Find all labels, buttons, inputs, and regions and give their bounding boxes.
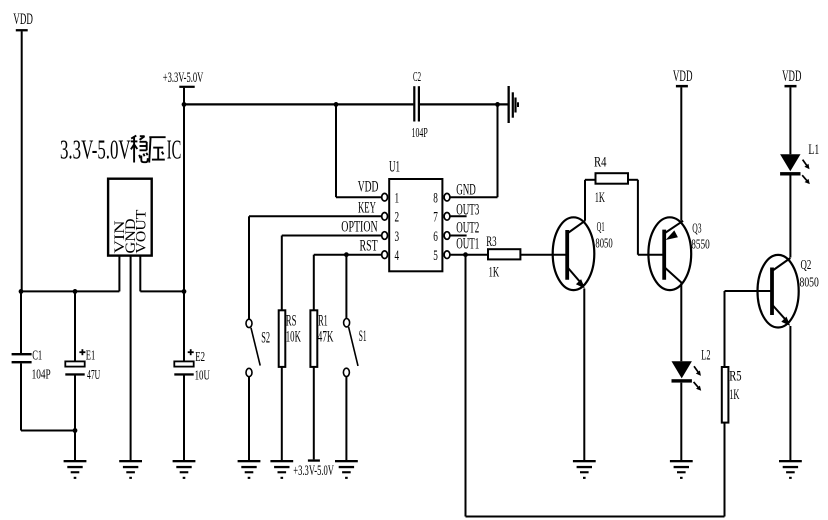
svg-text:IC: IC [167, 135, 182, 165]
svg-text:GND: GND [456, 182, 476, 199]
svg-text:8: 8 [433, 191, 438, 207]
wire Q3 emitter to VDD [680, 87, 682, 220]
ground (E1) [64, 460, 87, 479]
resistor R3 [488, 249, 520, 259]
svg-text:S1: S1 [359, 328, 367, 345]
svg-text:RST: RST [360, 237, 379, 254]
switch S1 [343, 319, 358, 377]
capacitor C1 [12, 353, 32, 363]
wire pin7 stub [450, 215, 467, 217]
wire KEY net [249, 216, 382, 319]
wire S1 branch [345, 255, 347, 319]
LED L2 [672, 361, 702, 391]
wire regulator GND pin [130, 256, 132, 461]
ground (RS) [270, 460, 293, 479]
wire top bus [184, 103, 509, 105]
svg-text:E1: E1 [86, 349, 96, 364]
ground (S2) [238, 460, 261, 479]
wire VDD to L1 [789, 87, 791, 154]
svg-text:R4: R4 [594, 155, 607, 171]
wire R1 to +3.3V-5.0V bar [313, 367, 315, 460]
pin 7 circle [444, 213, 450, 221]
wire E2 vertical [183, 88, 185, 461]
wire Q2 emitter to ground [789, 326, 791, 461]
svg-text:RS: RS [286, 312, 297, 329]
svg-text:1K: 1K [489, 265, 500, 281]
wire regulator VOUT pin [139, 256, 141, 292]
pin 4 circle [382, 251, 388, 259]
pin 2 circle [382, 213, 388, 221]
svg-text:47K: 47K [318, 328, 334, 345]
svg-text:8550: 8550 [691, 238, 710, 253]
IC U1 box [389, 179, 442, 271]
svg-text:8050: 8050 [800, 275, 819, 290]
ground (Q2 emitter) [779, 460, 802, 479]
wire RS to ground [281, 367, 283, 461]
svg-text:OUT2: OUT2 [456, 219, 479, 236]
pin 5 circle [444, 251, 450, 259]
pin 1 circle [382, 193, 388, 201]
ground (earth, right of C2, rotated) [508, 86, 520, 123]
wire C1 branch [21, 291, 75, 430]
glyph 稳 (drawn) [131, 136, 148, 163]
node VDD (above Q3) [676, 85, 688, 88]
wire RST net [314, 255, 382, 311]
wire pin6 stub [450, 235, 467, 237]
svg-text:+3.3V-5.0V: +3.3V-5.0V [293, 463, 334, 479]
capacitor E1 [65, 349, 85, 375]
svg-text:7: 7 [433, 210, 438, 226]
wire U1 GND riser [450, 104, 498, 197]
pin 8 circle [444, 193, 450, 201]
node VDD (top-left power) [16, 29, 28, 291]
svg-text:VDD: VDD [13, 11, 33, 28]
glyph 压 (drawn) [149, 137, 165, 162]
svg-text:U1: U1 [389, 159, 400, 176]
svg-text:3: 3 [395, 229, 400, 245]
svg-text:C2: C2 [413, 70, 421, 85]
transistor Q3 (PNP 8550) [648, 217, 691, 290]
svg-text:10K: 10K [286, 328, 301, 345]
svg-text:Q3: Q3 [692, 221, 701, 236]
svg-text:104P: 104P [32, 367, 51, 382]
wire R5 net [725, 291, 773, 367]
svg-text:VDD: VDD [782, 68, 801, 85]
wire left bus [20, 290, 120, 292]
switch S2 [246, 319, 260, 377]
wire right bus [140, 290, 184, 292]
svg-text:47U: 47U [87, 368, 100, 383]
svg-text:VDD: VDD [673, 68, 693, 85]
resistor R1 [310, 310, 317, 367]
wire Q3 collector to L2 [680, 283, 682, 361]
svg-text:VOUT: VOUT [133, 210, 149, 254]
svg-text:L2: L2 [701, 348, 710, 364]
wire OPTION net [282, 236, 382, 311]
capacitor C2 [413, 86, 420, 121]
wire OUT1 net [450, 255, 725, 517]
svg-text:6: 6 [433, 229, 438, 245]
transistor Q1 (NPN 8050) [553, 217, 595, 290]
wire S1 to ground [345, 377, 347, 461]
wire R3 to Q1 base [520, 254, 567, 256]
svg-text:VDD: VDD [358, 179, 379, 196]
node junction dots [19, 102, 500, 433]
wire U1 VDD drop [336, 104, 382, 197]
svg-text:8050: 8050 [595, 236, 612, 251]
svg-text:10U: 10U [195, 368, 210, 383]
transistor Q2 (NPN 8050) [758, 255, 799, 328]
svg-text:2: 2 [395, 210, 400, 226]
ground (E2) [173, 460, 196, 479]
pin 3 circle [382, 232, 388, 240]
svg-text:L1: L1 [808, 142, 819, 158]
wire S2 to ground [248, 377, 250, 461]
resistor RS [279, 310, 286, 367]
svg-text:4: 4 [395, 248, 400, 264]
node +3.3V-5.0V (bottom power bar) [308, 459, 320, 461]
node +3.3V-5.0V (top power tick) [179, 86, 194, 88]
pin 6 circle [444, 232, 450, 240]
ground (regulator GND) [119, 460, 142, 479]
svg-text:1K: 1K [729, 387, 739, 403]
svg-text:1K: 1K [595, 190, 605, 206]
svg-text:R5: R5 [729, 369, 741, 385]
ground (Q1 emitter) [573, 460, 596, 479]
node VDD (above L1) [785, 85, 797, 88]
wire Q1 emitter to ground [583, 289, 585, 461]
svg-text:E2: E2 [195, 350, 205, 365]
svg-text:Q2: Q2 [801, 258, 812, 273]
wire regulator VIN pin [118, 256, 120, 292]
svg-text:R1: R1 [318, 312, 328, 329]
svg-text:R3: R3 [486, 234, 496, 250]
svg-text:5: 5 [433, 248, 438, 264]
regulator U (3.3V-5.0V LDO) box [108, 179, 152, 256]
svg-text:3.3V-5.0V: 3.3V-5.0V [60, 135, 131, 165]
wire L2 to ground [680, 383, 682, 461]
wire L1 to Q2 collector [789, 176, 791, 258]
svg-text:+3.3V-5.0V: +3.3V-5.0V [163, 70, 204, 86]
svg-text:KEY: KEY [358, 199, 376, 216]
ground (L2) [670, 460, 693, 479]
svg-text:1: 1 [395, 191, 400, 207]
resistor R5 [722, 367, 729, 423]
svg-text:OPTION: OPTION [341, 218, 377, 235]
svg-text:S2: S2 [261, 329, 270, 346]
svg-text:OUT3: OUT3 [456, 201, 479, 218]
svg-text:OUT1: OUT1 [456, 235, 479, 252]
resistor R4 [596, 173, 629, 184]
LED L1 [780, 154, 810, 184]
svg-text:104P: 104P [412, 126, 428, 141]
ground (S1) [335, 460, 358, 479]
capacitor E2 [174, 349, 193, 375]
svg-text:C1: C1 [32, 349, 42, 364]
wire E1 branch [74, 291, 76, 460]
wire R4 to Q3 base [628, 180, 664, 255]
svg-text:Q1: Q1 [597, 220, 605, 235]
wire Q1 collector to R4 [585, 180, 596, 221]
